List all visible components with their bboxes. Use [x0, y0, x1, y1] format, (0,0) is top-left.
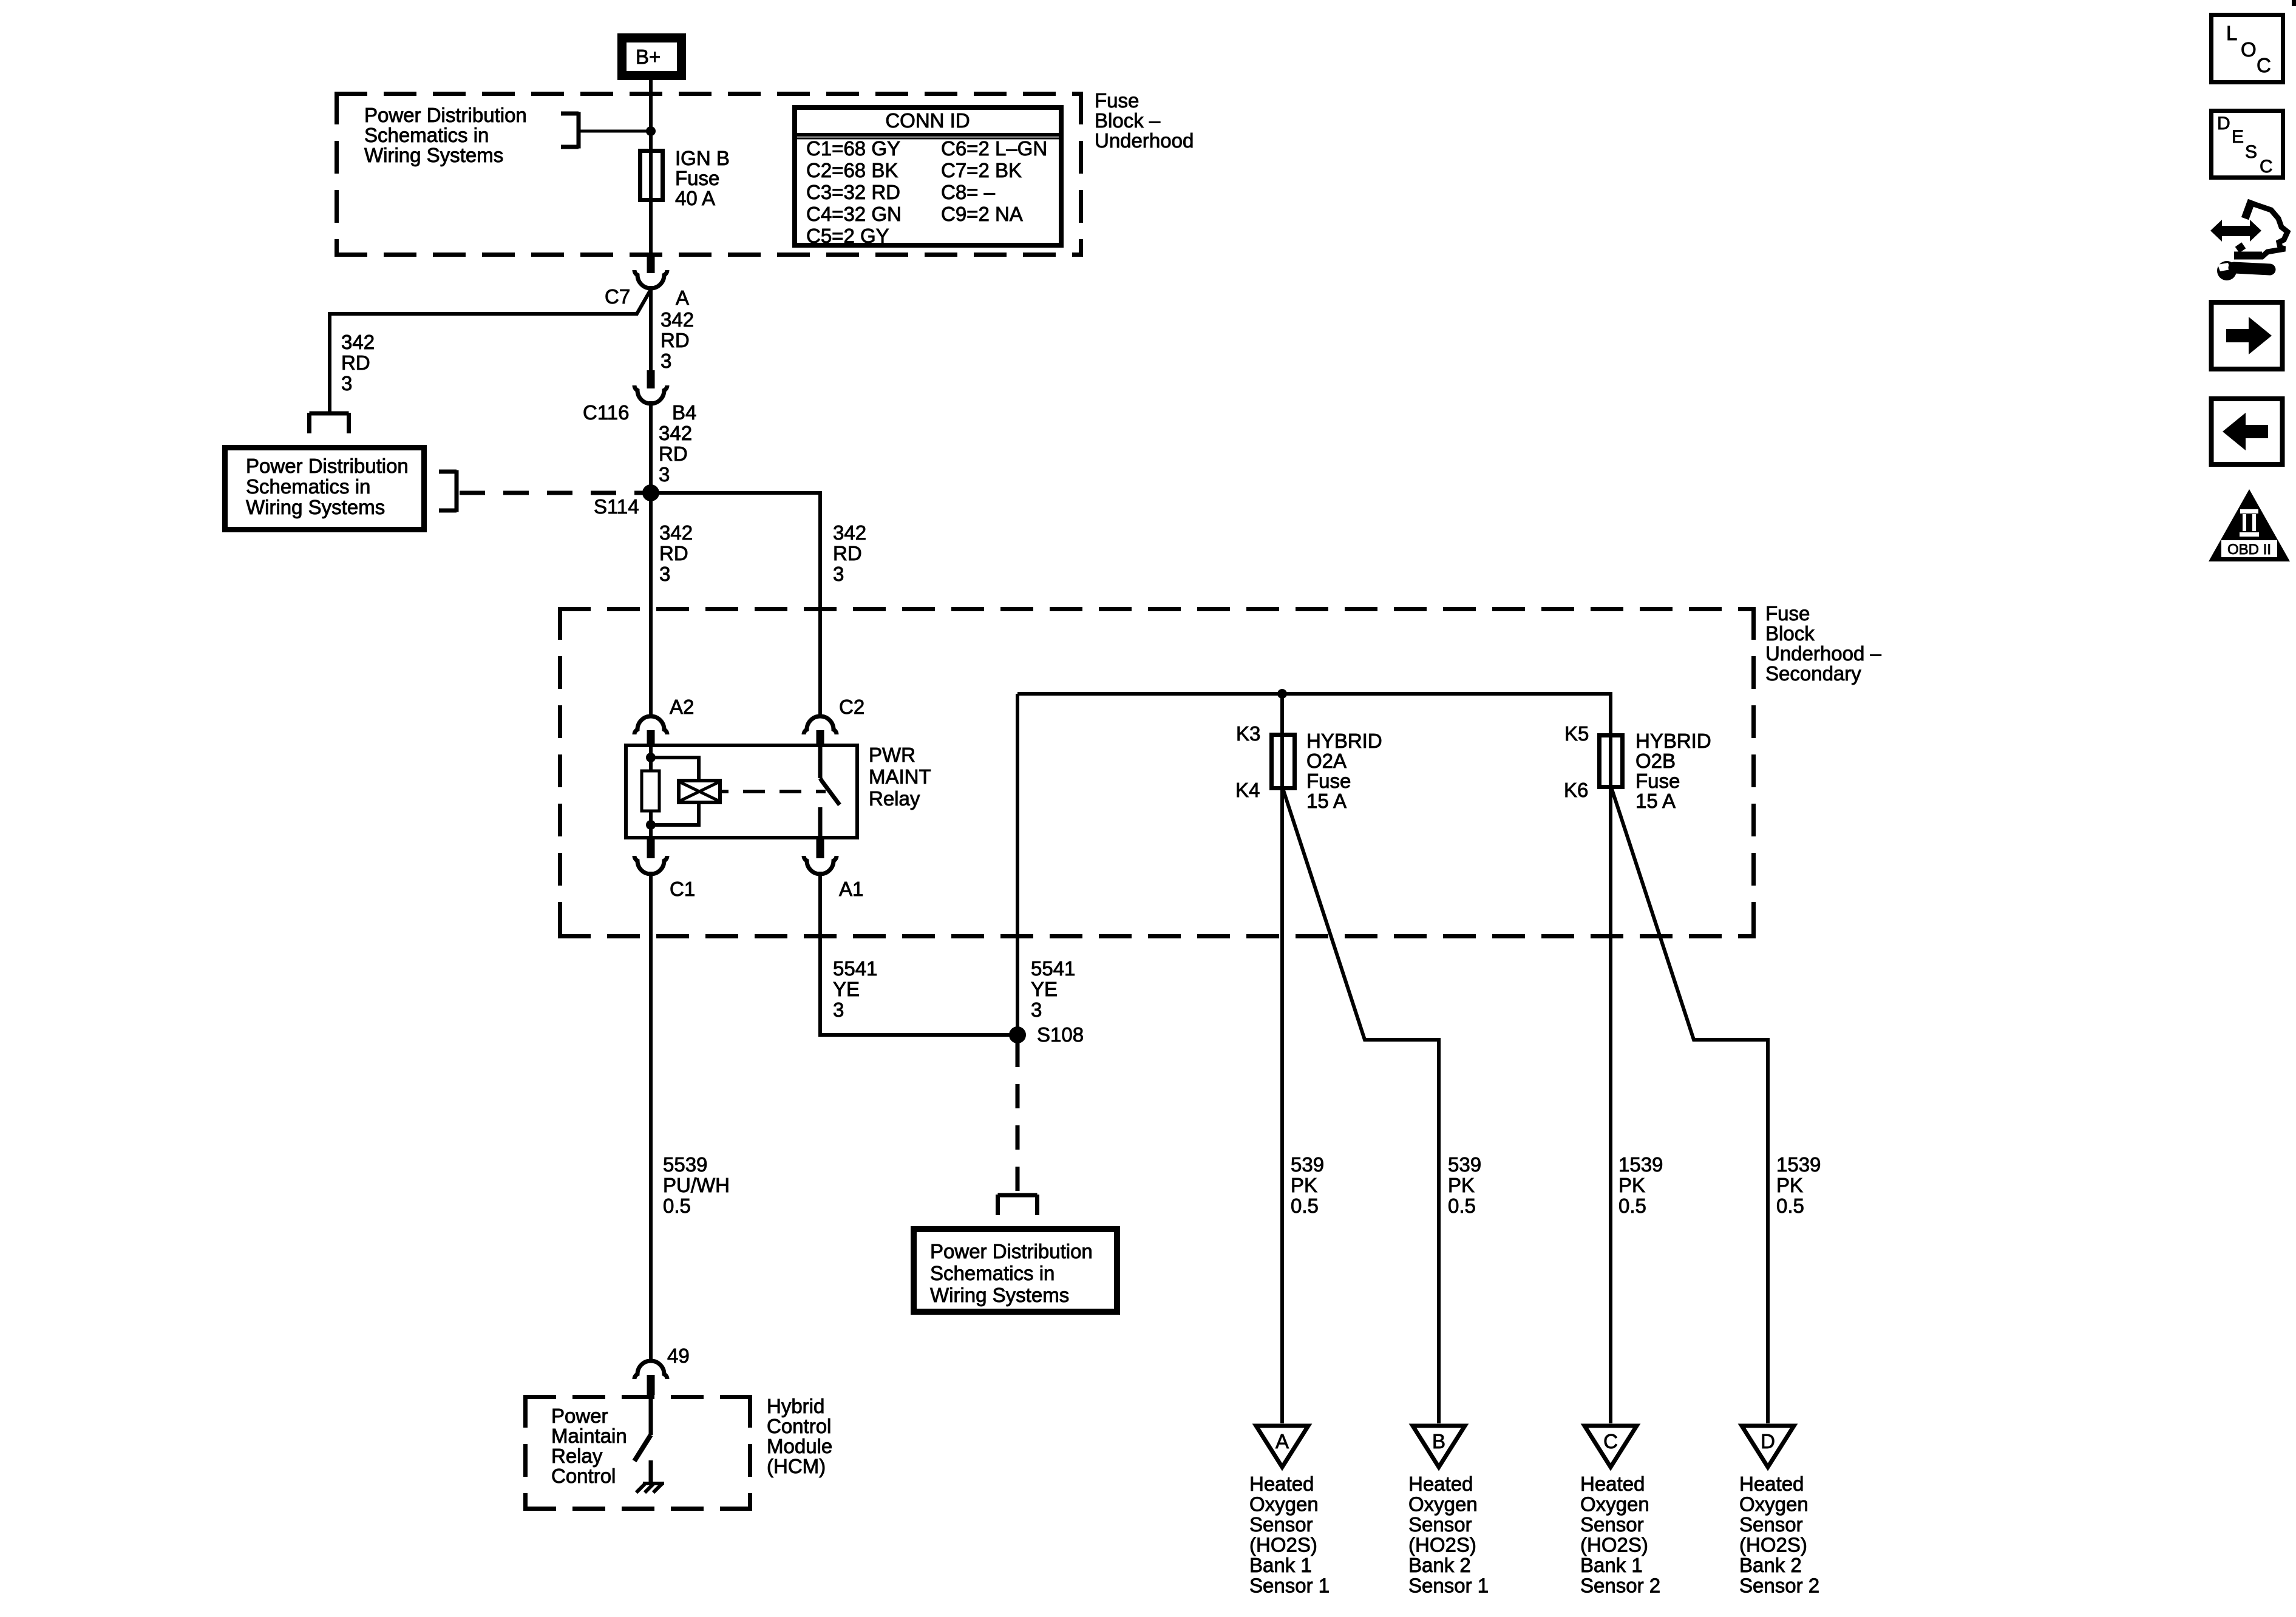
svg-text:Fuse: Fuse: [1306, 770, 1351, 792]
svg-text:IGN B: IGN B: [675, 147, 730, 169]
svg-text:Sensor 2: Sensor 2: [1739, 1575, 1819, 1597]
junction node on bus: [1277, 689, 1287, 699]
svg-text:C5=2 GY: C5=2 GY: [806, 225, 889, 247]
svg-text:Block –: Block –: [1095, 109, 1161, 132]
svg-text:Control: Control: [551, 1465, 616, 1487]
svg-text:Schematics in: Schematics in: [246, 475, 370, 498]
connector pin 49: [634, 1344, 690, 1395]
svg-text:D: D: [2217, 114, 2230, 134]
label 539 PK 0.5 A: [1291, 1153, 1324, 1217]
label PWR MAINT Relay: [869, 744, 931, 810]
svg-text:Hybrid: Hybrid: [767, 1395, 824, 1417]
svg-text:Control: Control: [767, 1415, 831, 1437]
label 5539 PU/WH 0.5: [663, 1153, 730, 1217]
svg-text:342: 342: [341, 331, 375, 353]
svg-text:C7: C7: [605, 285, 630, 308]
svg-text:C116: C116: [583, 401, 629, 424]
label 342 RD 3 left branch: [341, 331, 375, 395]
svg-text:Maintain: Maintain: [551, 1425, 627, 1447]
svg-text:A2: A2: [670, 696, 694, 718]
svg-text:Fuse: Fuse: [1635, 770, 1680, 792]
svg-text:Wiring Systems: Wiring Systems: [364, 144, 503, 166]
label 342 RD 3 below S114 left: [659, 521, 693, 585]
svg-text:K4: K4: [1235, 779, 1260, 801]
label 1539 PK 0.5 C: [1618, 1153, 1663, 1217]
svg-text:Schematics in: Schematics in: [930, 1262, 1055, 1284]
HO2S sensor D Bank/Sensor label: [1739, 1426, 1819, 1597]
svg-text:Sensor: Sensor: [1739, 1513, 1803, 1536]
wire C7 branch left: [330, 290, 651, 413]
svg-text:A: A: [1275, 1430, 1289, 1453]
label Fuse Block Underhood - Secondary: [1765, 602, 1881, 685]
label HYBRID O2B Fuse 15 A: [1635, 730, 1711, 812]
svg-text:0.5: 0.5: [1448, 1195, 1476, 1217]
svg-text:C8= –: C8= –: [941, 181, 996, 203]
svg-text:C1: C1: [670, 878, 695, 900]
svg-text:(HCM): (HCM): [767, 1455, 826, 1477]
svg-text:40 A: 40 A: [675, 187, 715, 209]
svg-text:MAINT: MAINT: [869, 765, 931, 788]
svg-text:K6: K6: [1564, 779, 1588, 801]
svg-text:Sensor: Sensor: [1408, 1513, 1472, 1536]
reference box Power Distribution Schematics in Wiring Systems: [225, 448, 424, 530]
wire A1 to S108: [820, 872, 1017, 1035]
svg-text:1539: 1539: [1776, 1153, 1821, 1176]
svg-text:C4=32 GN: C4=32 GN: [806, 203, 902, 225]
svg-text:539: 539: [1448, 1153, 1481, 1176]
page mark: [2292, 0, 2296, 6]
svg-text:L: L: [2226, 22, 2237, 44]
svg-text:RD: RD: [659, 542, 688, 564]
svg-text:Fuse: Fuse: [1765, 602, 1810, 625]
junction node: [646, 126, 656, 136]
svg-text:539: 539: [1291, 1153, 1324, 1176]
svg-text:HYBRID: HYBRID: [1635, 730, 1711, 752]
svg-text:5539: 5539: [663, 1153, 707, 1176]
svg-text:Secondary: Secondary: [1765, 662, 1861, 685]
svg-text:C1=68 GY: C1=68 GY: [806, 137, 900, 160]
svg-text:O: O: [2241, 38, 2257, 61]
wire C116 to S114: [649, 401, 653, 493]
svg-text:Schematics in: Schematics in: [364, 124, 489, 146]
svg-text:(HO2S): (HO2S): [1249, 1534, 1317, 1556]
wire K4 to sensor A: [1280, 790, 1284, 1423]
svg-text:Oxygen: Oxygen: [1408, 1493, 1478, 1516]
wire bracket to junction: [579, 130, 651, 133]
svg-text:0.5: 0.5: [1618, 1195, 1646, 1217]
svg-text:C9=2 NA: C9=2 NA: [941, 203, 1023, 225]
splice S108: [1009, 1023, 1084, 1046]
svg-text:3: 3: [341, 372, 352, 395]
connector A1: [804, 838, 863, 900]
fuse IGN B 40 A: [640, 151, 663, 200]
svg-text:Sensor: Sensor: [1249, 1513, 1313, 1536]
hybrid control module dashed box: [523, 1395, 752, 1511]
svg-text:Block: Block: [1765, 622, 1815, 645]
relay PWR MAINT: [626, 745, 857, 838]
icon hand with wrench: [2210, 200, 2288, 280]
svg-text:5541: 5541: [833, 957, 877, 980]
svg-text:C3=32 RD: C3=32 RD: [806, 181, 900, 203]
connector A2: [634, 696, 694, 745]
wire B+ to IGN B fuse: [649, 80, 653, 257]
icon OBD II: [2209, 489, 2290, 561]
svg-text:Oxygen: Oxygen: [1580, 1493, 1649, 1516]
svg-text:OBD II: OBD II: [2227, 541, 2271, 558]
fuse block underhood dashed box: [335, 92, 1083, 257]
wire S114 to connector C2: [651, 493, 820, 717]
label 342 RD 3 wire A: [661, 308, 694, 372]
wire bus to S108: [1016, 694, 1019, 1035]
svg-text:B: B: [1432, 1430, 1445, 1453]
svg-text:RD: RD: [833, 542, 862, 564]
svg-text:Power: Power: [551, 1405, 608, 1427]
fuse HYBRID O2A 15 A K3 K4: [1235, 722, 1295, 801]
svg-text:Heated: Heated: [1739, 1473, 1804, 1495]
icon LOC: [2212, 15, 2283, 83]
icon arrow right: [2212, 302, 2283, 369]
wire K6 to sensor C: [1609, 789, 1612, 1423]
svg-text:Power Distribution: Power Distribution: [364, 104, 527, 126]
svg-text:B4: B4: [672, 401, 696, 424]
svg-text:Sensor 1: Sensor 1: [1408, 1575, 1489, 1597]
svg-text:Power Distribution: Power Distribution: [930, 1240, 1093, 1263]
svg-text:PK: PK: [1291, 1174, 1317, 1196]
svg-text:O2B: O2B: [1635, 750, 1676, 772]
svg-text:Oxygen: Oxygen: [1739, 1493, 1809, 1516]
label 1539 PK 0.5 D: [1776, 1153, 1821, 1217]
svg-text:1539: 1539: [1618, 1153, 1663, 1176]
svg-text:Sensor: Sensor: [1580, 1513, 1644, 1536]
svg-text:C: C: [1603, 1430, 1618, 1453]
svg-text:PK: PK: [1448, 1174, 1475, 1196]
svg-text:(HO2S): (HO2S): [1580, 1534, 1648, 1556]
svg-text:Relay: Relay: [869, 787, 920, 810]
svg-text:K3: K3: [1236, 722, 1260, 745]
power node B+: [622, 38, 682, 76]
label Fuse Block - Underhood: [1095, 89, 1194, 152]
svg-text:342: 342: [659, 422, 692, 444]
wire bus to fuse K3: [1280, 694, 1284, 733]
svg-text:342: 342: [661, 308, 694, 331]
connector C1: [634, 838, 695, 900]
svg-text:C6=2 L–GN: C6=2 L–GN: [941, 137, 1047, 160]
svg-text:S108: S108: [1037, 1023, 1084, 1046]
reference note Power Distribution Schematics in Wiring Systems: [364, 104, 527, 166]
connector C2: [804, 696, 864, 745]
svg-text:342: 342: [659, 521, 693, 544]
svg-text:C: C: [2260, 157, 2273, 177]
label 342 RD 3 below C116: [659, 422, 692, 486]
splice S114: [594, 484, 659, 518]
svg-text:49: 49: [667, 1344, 690, 1367]
svg-text:3: 3: [659, 463, 670, 486]
connector C7 pin A: [605, 255, 689, 370]
HO2S sensor B Bank/Sensor label: [1408, 1426, 1489, 1597]
svg-text:5541: 5541: [1031, 957, 1075, 980]
label Hybrid Control Module HCM: [767, 1395, 832, 1477]
wire C1 to HCM pin 49: [649, 872, 653, 1361]
fuse HYBRID O2B 15 A K5 K6: [1564, 722, 1623, 801]
svg-text:RD: RD: [661, 329, 690, 351]
label IGN B Fuse 40 A: [675, 147, 730, 209]
svg-text:0.5: 0.5: [663, 1195, 691, 1217]
svg-text:342: 342: [833, 521, 866, 544]
label Power Maintain Relay Control: [551, 1405, 627, 1487]
reference bracket: [439, 470, 457, 512]
svg-text:Sensor 1: Sensor 1: [1249, 1575, 1330, 1597]
svg-text:0.5: 0.5: [1291, 1195, 1319, 1217]
reference bracket: [310, 413, 349, 433]
svg-text:Oxygen: Oxygen: [1249, 1493, 1319, 1516]
svg-text:A1: A1: [839, 878, 863, 900]
svg-text:Wiring Systems: Wiring Systems: [246, 496, 385, 518]
svg-text:S: S: [2245, 142, 2257, 162]
svg-text:CONN ID: CONN ID: [885, 109, 970, 132]
svg-text:Heated: Heated: [1249, 1473, 1314, 1495]
wire K4 to sensor B: [1283, 790, 1439, 1423]
svg-text:C: C: [2257, 54, 2271, 76]
svg-text:Bank 2: Bank 2: [1408, 1554, 1471, 1576]
svg-text:YE: YE: [833, 978, 860, 1000]
svg-text:A: A: [676, 286, 689, 309]
svg-text:Underhood –: Underhood –: [1765, 642, 1881, 665]
label 5541 YE 3 right: [1031, 957, 1075, 1021]
svg-text:Relay: Relay: [551, 1445, 603, 1467]
svg-text:Heated: Heated: [1580, 1473, 1645, 1495]
svg-text:C2: C2: [839, 696, 864, 718]
icon DESC: [2212, 111, 2283, 178]
svg-text:0.5: 0.5: [1776, 1195, 1804, 1217]
dashed wire S108 to reference: [1016, 1043, 1020, 1195]
icon arrow left: [2212, 399, 2283, 464]
svg-text:Bank 1: Bank 1: [1580, 1554, 1643, 1576]
svg-text:3: 3: [659, 563, 670, 585]
svg-text:Power Distribution: Power Distribution: [246, 455, 409, 477]
reference bracket: [998, 1195, 1038, 1215]
svg-text:HYBRID: HYBRID: [1306, 730, 1382, 752]
svg-text:C7=2 BK: C7=2 BK: [941, 159, 1022, 181]
svg-text:PU/WH: PU/WH: [663, 1174, 730, 1196]
dashed wire reference to S114: [460, 491, 644, 495]
wire K6 to sensor D: [1612, 789, 1768, 1423]
label 539 PK 0.5 B: [1448, 1153, 1481, 1217]
svg-text:YE: YE: [1031, 978, 1058, 1000]
svg-text:Heated: Heated: [1408, 1473, 1473, 1495]
svg-text:Bank 2: Bank 2: [1739, 1554, 1802, 1576]
fuse block underhood secondary dashed box: [558, 607, 1756, 938]
reference bracket: [561, 112, 579, 149]
svg-text:O2A: O2A: [1306, 750, 1347, 772]
connector ID table CONN ID: [795, 107, 1061, 247]
svg-text:Wiring Systems: Wiring Systems: [930, 1284, 1069, 1306]
svg-text:3: 3: [661, 350, 671, 372]
svg-text:(HO2S): (HO2S): [1408, 1534, 1476, 1556]
HO2S sensor C Bank/Sensor label: [1580, 1426, 1660, 1597]
svg-text:S114: S114: [594, 495, 639, 518]
svg-text:RD: RD: [659, 442, 688, 465]
svg-text:Module: Module: [767, 1435, 832, 1457]
ground: [636, 1460, 664, 1493]
svg-text:15 A: 15 A: [1306, 790, 1347, 812]
svg-text:(HO2S): (HO2S): [1739, 1534, 1807, 1556]
bus wire: [1017, 694, 1611, 733]
svg-text:PK: PK: [1618, 1174, 1645, 1196]
svg-text:PK: PK: [1776, 1174, 1803, 1196]
svg-text:3: 3: [833, 563, 844, 585]
svg-text:3: 3: [1031, 998, 1042, 1021]
svg-text:E: E: [2232, 127, 2244, 147]
svg-text:15 A: 15 A: [1635, 790, 1676, 812]
label 342 RD 3 below S114 right: [833, 521, 866, 585]
switch power maintain relay control: [634, 1395, 651, 1461]
HO2S sensor A Bank/Sensor label: [1249, 1426, 1330, 1597]
reference box Power Distribution Schematics in Wiring Systems: [914, 1229, 1117, 1312]
svg-text:Sensor 2: Sensor 2: [1580, 1575, 1660, 1597]
svg-text:Fuse: Fuse: [675, 167, 719, 189]
svg-text:RD: RD: [341, 351, 370, 374]
label 5541 YE 3 left: [833, 957, 877, 1021]
svg-text:K5: K5: [1564, 722, 1589, 745]
svg-text:B+: B+: [636, 46, 661, 68]
svg-text:PWR: PWR: [869, 744, 915, 766]
svg-text:3: 3: [833, 998, 844, 1021]
svg-text:C2=68 BK: C2=68 BK: [806, 159, 898, 181]
svg-text:D: D: [1761, 1430, 1775, 1453]
label HYBRID O2A Fuse 15 A: [1306, 730, 1382, 812]
svg-text:Fuse: Fuse: [1095, 89, 1139, 112]
connector C116 pin B4: [583, 370, 696, 424]
svg-text:Underhood: Underhood: [1095, 129, 1194, 152]
svg-text:Bank 1: Bank 1: [1249, 1554, 1312, 1576]
wire S114 to connector A2: [649, 493, 653, 717]
